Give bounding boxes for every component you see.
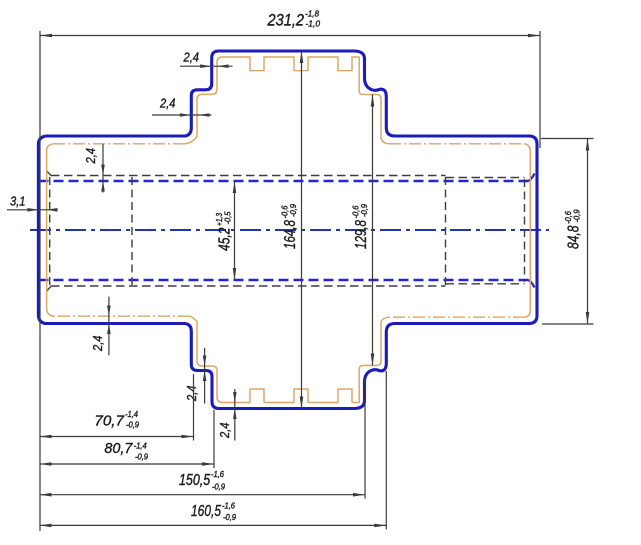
dimension 164,8 center xyxy=(281,51,304,409)
dimension 2,4 (bottom boss allowance) xyxy=(91,297,111,356)
svg-text:-1,4: -1,4 xyxy=(125,410,139,419)
svg-text:-0,9: -0,9 xyxy=(212,483,226,492)
dimension 70,7 xyxy=(40,374,194,441)
svg-text:-1,8: -1,8 xyxy=(305,9,319,19)
svg-text:-1,4: -1,4 xyxy=(134,442,148,451)
dimension 160,5 xyxy=(40,371,387,529)
svg-text:231,2: 231,2 xyxy=(267,12,304,30)
svg-text:84,8: 84,8 xyxy=(566,225,583,249)
dimension 2,4 (top step) xyxy=(180,51,233,69)
svg-text:164,8: 164,8 xyxy=(282,220,299,249)
dimension 150,5 xyxy=(40,378,366,499)
svg-text:70,7: 70,7 xyxy=(94,414,124,430)
part left hub bottom line (dash-dot) xyxy=(53,315,190,317)
svg-text:2,4: 2,4 xyxy=(91,335,105,351)
dimension 231,2 top xyxy=(40,9,540,532)
svg-text:2,4: 2,4 xyxy=(218,422,232,438)
svg-text:-0,9: -0,9 xyxy=(360,203,369,217)
svg-text:45,2: 45,2 xyxy=(217,227,234,251)
svg-text:160,5: 160,5 xyxy=(191,503,221,520)
part left end face xyxy=(47,144,53,316)
part right end face xyxy=(525,144,530,317)
machined part outline (orange) xyxy=(47,57,531,403)
svg-text:129,8: 129,8 xyxy=(353,220,370,249)
svg-text:80,7: 80,7 xyxy=(104,440,133,457)
svg-text:3,1: 3,1 xyxy=(10,195,26,209)
part left hub top line (dash-dot) xyxy=(53,143,184,145)
dimension 3,1 left face xyxy=(7,195,58,212)
bore end verticals xyxy=(49,177,51,285)
svg-text:-0,9: -0,9 xyxy=(126,421,140,430)
part upper profile with teeth notches xyxy=(184,57,389,144)
dimension 129,8 xyxy=(352,95,375,366)
svg-text:2,4: 2,4 xyxy=(84,148,98,164)
svg-text:-0,5: -0,5 xyxy=(224,211,233,225)
forging bore hidden line bottom xyxy=(39,280,535,288)
part right hub top line (dash-dot) xyxy=(389,143,525,145)
dimension 2,4 (left step) xyxy=(152,97,212,117)
dimension 45,2 bore xyxy=(215,181,236,280)
bore bottom lines xyxy=(51,285,446,287)
centerline axis xyxy=(30,229,549,231)
bore chamfer top-left xyxy=(47,171,52,176)
part lower profile with teeth notches xyxy=(190,316,389,402)
forging bore hidden line top xyxy=(39,174,535,182)
forging outline (blue) xyxy=(38,51,537,409)
svg-text:2,4: 2,4 xyxy=(159,97,175,111)
svg-text:-0,9: -0,9 xyxy=(135,453,149,462)
dimension 80,7 xyxy=(40,410,215,468)
svg-text:2,4: 2,4 xyxy=(183,51,199,65)
svg-text:-0,9: -0,9 xyxy=(223,513,237,522)
svg-text:-1,0: -1,0 xyxy=(306,19,321,29)
svg-text:-1,6: -1,6 xyxy=(211,470,225,479)
bore chamfer bottom-left xyxy=(47,286,52,291)
dimension 2,4 (bottom face) xyxy=(218,389,237,441)
dimension 2,4 (bottom-left step) xyxy=(185,348,206,404)
part bore hidden rectangle (black dashed) xyxy=(47,171,525,291)
bore top lines xyxy=(51,175,446,177)
dimension 84,8 right xyxy=(541,139,594,325)
svg-text:150,5: 150,5 xyxy=(179,472,210,489)
svg-text:-0,9: -0,9 xyxy=(573,209,582,223)
svg-text:2,4: 2,4 xyxy=(185,385,199,401)
dimension 2,4 (bore allowance) xyxy=(84,144,105,193)
svg-text:-1,6: -1,6 xyxy=(222,502,236,511)
part right hub bottom line (dash-dot) xyxy=(389,316,525,318)
svg-text:-0,9: -0,9 xyxy=(289,203,298,217)
